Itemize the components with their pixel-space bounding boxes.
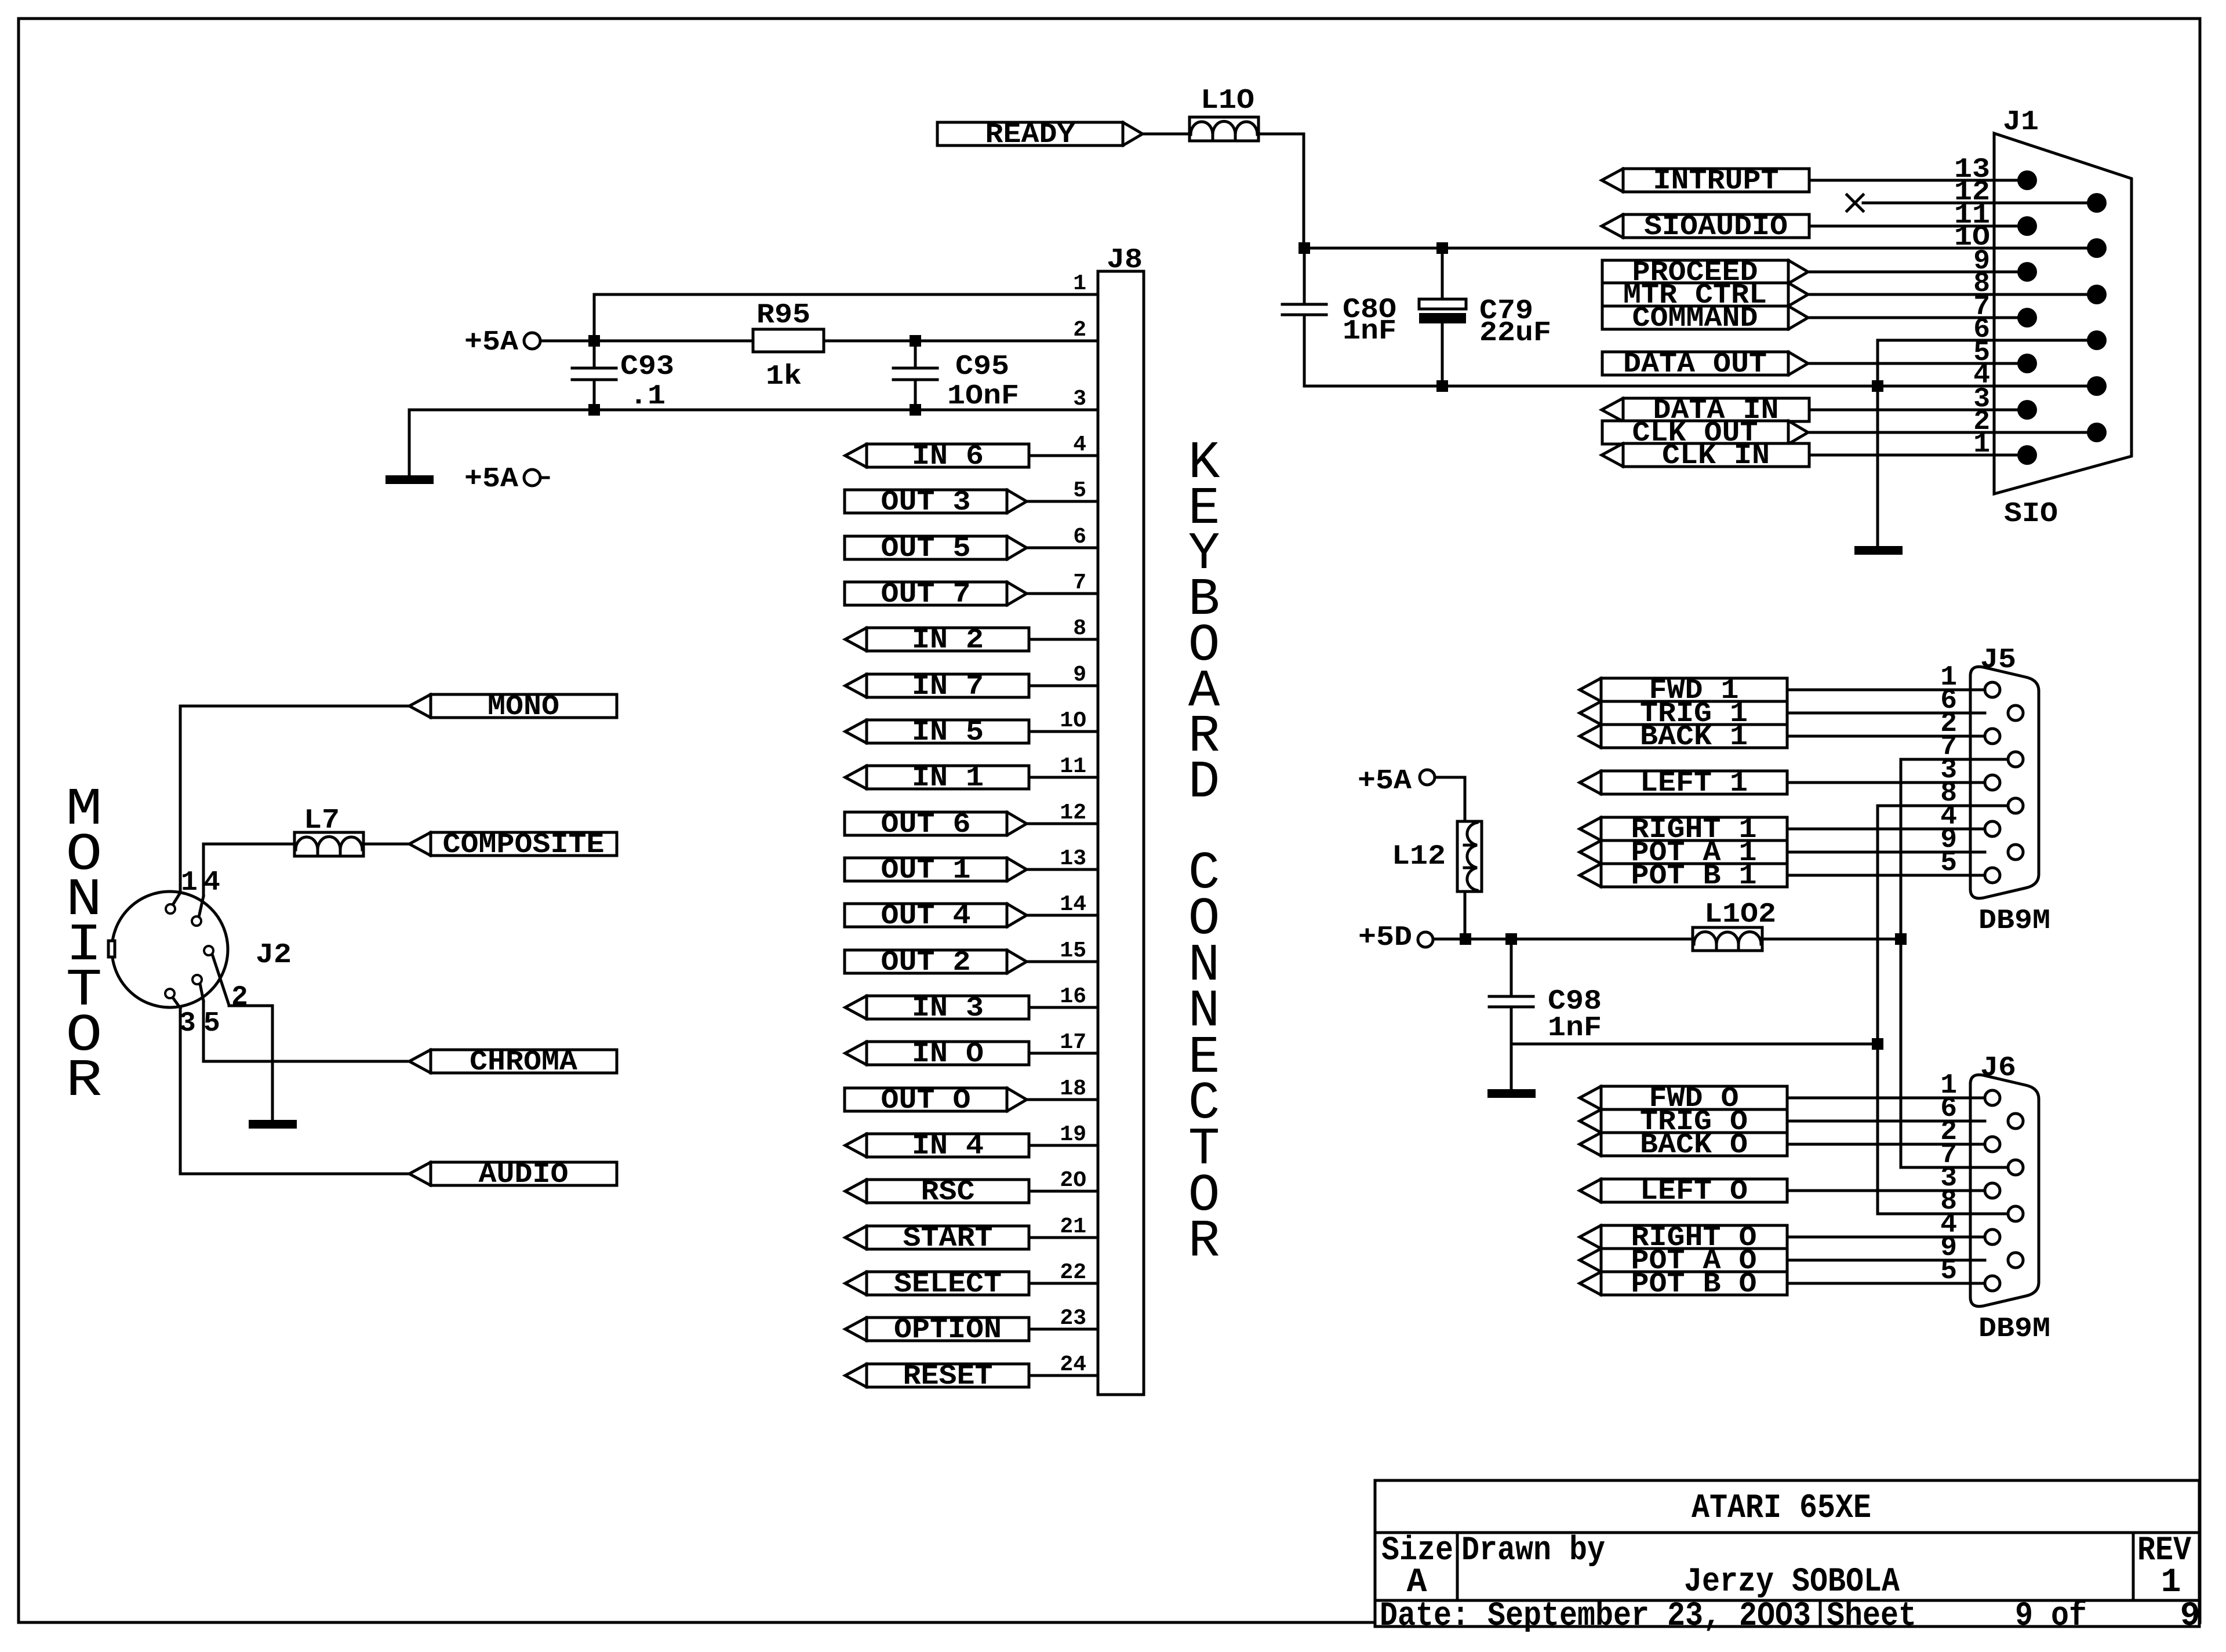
pin 3 J1 [1973, 384, 1990, 415]
svg-text:13: 13 [1060, 846, 1086, 871]
signal flag AUDIO [409, 1159, 617, 1191]
svg-text:SIO: SIO [2004, 498, 2058, 530]
pin 7 J6 [1940, 1140, 1957, 1171]
svg-text:J8: J8 [1107, 245, 1143, 276]
svg-text:.1: .1 [630, 381, 665, 412]
power terminal +5A (return) [464, 464, 548, 495]
svg-text:OUT 5: OUT 5 [881, 533, 971, 565]
title text ATARI 65XE [1692, 1490, 1871, 1527]
pin 1 J1 [1973, 429, 1990, 460]
label MONITOR [66, 780, 103, 1111]
svg-text:SIOAUDIO: SIOAUDIO [1644, 212, 1788, 243]
pin 19 J8 [1060, 1122, 1086, 1147]
pin 2 J1 [1973, 406, 1990, 438]
svg-text:1: 1 [2161, 1564, 2181, 1602]
pin 2 J5 [1940, 708, 1957, 740]
wire J5 pin 5 [1787, 874, 1985, 877]
svg-text:RESET: RESET [903, 1361, 993, 1392]
svg-text:1nF: 1nF [1548, 1013, 1602, 1044]
svg-text:22: 22 [1060, 1260, 1086, 1285]
wire J8 pin 23 [1029, 1328, 1098, 1331]
signal flag OUT 0 [845, 1085, 1027, 1116]
wire J5 pin 9 [1787, 851, 1985, 854]
svg-text:1nF: 1nF [1343, 316, 1396, 347]
wire J8 pin 24 [1029, 1374, 1098, 1377]
svg-text:+5A: +5A [1358, 766, 1412, 797]
pin 11 J8 [1060, 754, 1086, 779]
connector J1 SIO body [1994, 107, 2132, 530]
svg-text:4: 4 [1073, 432, 1086, 457]
pin 4 J1 [1973, 360, 1990, 391]
signal flag START [845, 1223, 1029, 1254]
pin 1 J2 [166, 867, 198, 914]
connector J6 DB9M body [1970, 1053, 2050, 1345]
svg-text:DB9M: DB9M [1978, 1313, 2050, 1345]
svg-text:OUT 3: OUT 3 [881, 487, 971, 518]
junction pin7 bus/+5D [1895, 933, 1907, 945]
svg-text:21: 21 [1060, 1214, 1086, 1239]
pin 11 J1 [1954, 200, 1990, 231]
wire J8 pin 12 [1027, 823, 1098, 825]
pin 12 J1 [1954, 177, 1990, 208]
svg-text:22uF: 22uF [1479, 318, 1551, 349]
svg-text:6: 6 [1073, 525, 1086, 550]
signal flag CLK IN [1602, 441, 1809, 472]
signal flag RSC [845, 1177, 1029, 1208]
pin 20 J8 [1060, 1168, 1086, 1193]
wire J8 pin 13 [1027, 868, 1098, 871]
signal flag DATA IN [1602, 395, 1809, 427]
pin 4 J8 [1073, 432, 1086, 457]
wire L12 to +5D rail [1464, 892, 1467, 939]
wire J1 pin 1 [1809, 454, 2027, 457]
signal flag MTR CTRL [1602, 280, 1808, 311]
svg-text:POT B 1: POT B 1 [1631, 861, 1757, 892]
wire J1 pin 12 [1863, 202, 2097, 205]
inductor L7 [294, 805, 363, 856]
wire +5D rail [1433, 938, 1693, 941]
wire J5 pin 8 [1878, 805, 2008, 807]
svg-text:DB9M: DB9M [1978, 905, 2050, 937]
pin 15 J8 [1060, 938, 1086, 963]
svg-text:2: 2 [231, 982, 248, 1013]
svg-text:START: START [903, 1223, 993, 1254]
svg-text:7: 7 [1073, 570, 1086, 595]
svg-text:OUT 7: OUT 7 [881, 579, 971, 610]
signal flag SELECT [845, 1269, 1029, 1300]
no-connect X J1 pin 12 [1847, 195, 1863, 211]
signal flag BACK 1 [1580, 722, 1787, 753]
pin 5 J8 [1073, 478, 1086, 503]
svg-text:3: 3 [179, 1008, 196, 1039]
svg-text:9: 9 [2180, 1598, 2200, 1635]
pin 1 J5 [1940, 662, 1957, 693]
svg-text:R: R [66, 1051, 103, 1111]
svg-text:J6: J6 [1980, 1053, 2016, 1084]
wire J8 pin 1 rail [594, 294, 1098, 341]
signal flag OUT 3 [845, 487, 1027, 518]
connector J8 body [1098, 245, 1144, 1395]
signal flag RESET [845, 1361, 1029, 1392]
svg-text:J2: J2 [256, 940, 292, 971]
pin 2 J8 [1073, 318, 1086, 343]
svg-text:R95: R95 [756, 300, 810, 331]
wire CHROMA to J2 pin 5 [203, 1001, 409, 1061]
svg-text:D: D [1188, 753, 1220, 813]
svg-text:1: 1 [1973, 429, 1990, 460]
pin 10 J1 [1954, 222, 1990, 253]
wire J8 pin 18 [1027, 1098, 1098, 1101]
wire J8 pin 22 [1029, 1282, 1098, 1285]
pin 6 J1 [1973, 314, 1990, 345]
wire AUDIO to J2 pin 3 [180, 1008, 409, 1174]
pin 13 J1 [1954, 154, 1990, 185]
wire L7 to J2 pin 4 [203, 844, 294, 896]
wire L102 to J5/J6 pin7 bus [1762, 938, 1901, 941]
wire J2 pin 2 to ground [229, 1006, 272, 1120]
signal flag COMPOSITE [409, 829, 617, 861]
pin 17 J8 [1060, 1030, 1086, 1055]
pin 5 J1 [1973, 337, 1990, 369]
signal flag IN 3 [845, 993, 1029, 1024]
svg-text:OUT 6: OUT 6 [881, 809, 971, 840]
title block field Sheet [1827, 1598, 2200, 1635]
signal flag MONO [409, 692, 617, 723]
pin 3 J6 [1940, 1163, 1957, 1194]
wire J8 pin 2 rail [594, 340, 1098, 343]
pin 9 J8 [1073, 663, 1086, 687]
pin 24 J8 [1060, 1352, 1086, 1377]
signal flag READY [937, 119, 1143, 151]
wire J6 pin 1 [1787, 1097, 1985, 1100]
pin 3 J2 [165, 989, 196, 1039]
power terminal +5D [1358, 922, 1433, 954]
wire J8 pin 10 [1029, 730, 1098, 733]
pin 5 J2 [192, 975, 220, 1039]
pin 10 J8 [1060, 708, 1086, 733]
svg-text:8: 8 [1073, 616, 1086, 641]
wire J6 pin 5 [1787, 1282, 1985, 1285]
pin 16 J8 [1060, 984, 1086, 1009]
svg-text:J5: J5 [1980, 645, 2016, 676]
svg-text:2O: 2O [1060, 1168, 1086, 1193]
wire J6 pin 7 [1901, 1166, 2008, 1169]
svg-text:11: 11 [1060, 754, 1086, 779]
svg-text:1: 1 [181, 867, 198, 898]
signal flag CLK OUT [1602, 418, 1808, 449]
wire J8 pin 6 [1027, 547, 1098, 550]
signal flag LEFT 1 [1580, 768, 1787, 799]
wire J1 pin 8 [1808, 293, 2097, 296]
signal flag OUT 7 [845, 579, 1027, 610]
pin 3 J5 [1940, 755, 1957, 786]
pin 3 J8 [1073, 387, 1086, 412]
wire J1 pin 11 [1809, 225, 2027, 228]
svg-text:9: 9 [1073, 663, 1086, 687]
signal flag LEFT 0 [1580, 1176, 1787, 1207]
wire J6 pin 4 [1787, 1236, 1985, 1239]
svg-text:IN 6: IN 6 [912, 441, 984, 472]
wire J1 pin 13 [1809, 179, 2027, 182]
svg-text:IN O: IN O [912, 1039, 984, 1070]
junction C79 bottom [1436, 380, 1448, 392]
svg-text:14: 14 [1060, 892, 1086, 917]
svg-text:1O: 1O [1060, 708, 1086, 733]
svg-text:LEFT 1: LEFT 1 [1640, 768, 1748, 799]
svg-text:COMMAND: COMMAND [1632, 303, 1758, 334]
signal flag FWD 1 [1580, 675, 1787, 707]
wire J6 pin 3 [1787, 1189, 1985, 1192]
ground (C98) [1487, 1089, 1536, 1098]
pin 4 J6 [1940, 1209, 1957, 1240]
svg-text:Sheet: Sheet [1827, 1598, 1916, 1635]
pin 23 J8 [1060, 1306, 1086, 1331]
svg-text:1: 1 [1073, 271, 1086, 296]
svg-text:+5A: +5A [464, 464, 518, 495]
junction C80 top [1298, 242, 1310, 254]
pin 13 J8 [1060, 846, 1086, 871]
wire J5 pin 4 [1787, 828, 1985, 831]
pin 7 J1 [1973, 292, 1990, 323]
wire J8 pin 14 [1027, 914, 1098, 917]
pin 7 J5 [1940, 732, 1957, 763]
svg-text:CLK IN: CLK IN [1662, 441, 1770, 472]
svg-text:4: 4 [203, 867, 220, 898]
ground (J2) [249, 1120, 297, 1129]
svg-text:MONO: MONO [488, 692, 559, 723]
pin 21 J8 [1060, 1214, 1086, 1239]
signal flag OUT 2 [845, 947, 1027, 978]
wire J8 pin 19 [1029, 1144, 1098, 1147]
junction pin8 bus/ground rail [1872, 1038, 1883, 1050]
junction pin4 rail / SIO ground bus [1872, 380, 1883, 392]
svg-text:C95: C95 [955, 351, 1009, 383]
pin 12 J8 [1060, 800, 1086, 825]
wire COMPOSITE to L7 [363, 843, 409, 846]
svg-text:2: 2 [1073, 318, 1086, 343]
svg-text:OUT 2: OUT 2 [881, 947, 971, 978]
wire J8 pin 21 [1029, 1236, 1098, 1239]
pin 9 J6 [1940, 1232, 1957, 1264]
signal flag PROCEED [1602, 257, 1808, 289]
title block field Date [1380, 1598, 1811, 1635]
svg-text:3: 3 [1073, 387, 1086, 412]
junction C79 top [1436, 242, 1448, 254]
svg-text:1OnF: 1OnF [947, 381, 1019, 412]
signal flag CHROMA [409, 1047, 617, 1078]
wire READY to L10 [1143, 133, 1190, 136]
svg-text:POT B O: POT B O [1631, 1269, 1757, 1300]
signal flag IN 5 [845, 717, 1029, 748]
resistor R95 [753, 300, 824, 392]
junction C98/+5D [1505, 933, 1517, 945]
pin 1 J8 [1073, 271, 1086, 296]
wire J1 pin 2 [1808, 431, 2097, 434]
pin 2 J2 [204, 946, 248, 1013]
svg-text:A: A [1407, 1564, 1427, 1602]
wire MONO to J2 pin 1 [180, 706, 409, 893]
signal flag INTRUPT [1602, 166, 1809, 197]
svg-text:SELECT: SELECT [894, 1269, 1002, 1300]
svg-text:19: 19 [1060, 1122, 1086, 1147]
svg-text:IN 4: IN 4 [912, 1131, 984, 1162]
signal flag SIOAUDIO [1602, 212, 1809, 243]
wire J6 pin 2 [1787, 1143, 1985, 1146]
signal flag OPTION [845, 1315, 1029, 1346]
wire J5 pin 2 [1787, 735, 1985, 738]
power terminal +5A (top) [464, 327, 594, 358]
signal flag RIGHT 0 [1580, 1222, 1787, 1254]
signal flag OUT 6 [845, 809, 1027, 840]
pin 18 J8 [1060, 1076, 1086, 1101]
svg-text:5: 5 [203, 1008, 220, 1039]
ground (SIO) [1854, 546, 1903, 555]
wire J1 pin 5 [1808, 362, 2027, 365]
capacitor C98 1nF [1489, 939, 1602, 1044]
junction L12/+5D [1460, 933, 1471, 945]
svg-text:LEFT O: LEFT O [1640, 1176, 1748, 1207]
wire J1 pin 7 [1808, 316, 2027, 319]
svg-text:9 of: 9 of [2015, 1598, 2087, 1635]
signal flag IN 6 [845, 441, 1029, 472]
wire J5 pin 1 [1787, 689, 1985, 692]
svg-text:18: 18 [1060, 1076, 1086, 1101]
junction C95 pin2 [910, 335, 921, 347]
pin 5 J5 [1940, 847, 1957, 879]
svg-text:IN 3: IN 3 [912, 993, 984, 1024]
wire C98 ground rail [1511, 1007, 1878, 1089]
svg-text:DATA OUT: DATA OUT [1623, 349, 1767, 380]
wire J8 pin 9 [1029, 685, 1098, 687]
svg-text:IN 7: IN 7 [912, 671, 984, 703]
svg-text:OUT O: OUT O [881, 1085, 971, 1116]
wire J8 pin 11 [1029, 776, 1098, 779]
svg-text:24: 24 [1060, 1352, 1086, 1377]
junction C95 pin3 [910, 404, 921, 416]
svg-text:23: 23 [1060, 1306, 1086, 1331]
wire J8 pin 20 [1029, 1190, 1098, 1193]
svg-text:BACK O: BACK O [1640, 1130, 1748, 1161]
signal flag POT A 1 [1580, 838, 1787, 869]
junction +5A/C93 pin2 [588, 335, 600, 347]
svg-text:L1O2: L1O2 [1704, 899, 1776, 930]
wire J8 pin 7 [1027, 592, 1098, 595]
svg-text:5: 5 [1073, 478, 1086, 503]
svg-text:5: 5 [1940, 1256, 1957, 1287]
wire L10 to SIO pin10 rail [1259, 134, 1304, 248]
svg-text:+5A: +5A [464, 327, 518, 358]
signal flag DATA OUT [1602, 349, 1808, 380]
junction C93 pin3 [588, 404, 600, 416]
svg-text:CHROMA: CHROMA [470, 1047, 577, 1078]
wire J8 pin 3 rail [409, 410, 1098, 475]
svg-text:16: 16 [1060, 984, 1086, 1009]
inductor L12 [1392, 821, 1482, 892]
connector J5 DB9M body [1970, 645, 2050, 937]
svg-text:INTRUPT: INTRUPT [1653, 166, 1779, 197]
pin 4 J2 [192, 867, 220, 926]
wire J1 pin 6 to ground bus [1878, 340, 2097, 546]
signal flag POT B 0 [1580, 1269, 1787, 1300]
signal flag TRIG 1 [1580, 698, 1787, 730]
svg-text:RSC: RSC [921, 1177, 975, 1208]
signal flag TRIG 0 [1580, 1107, 1787, 1138]
wire J6 pin 8 [1878, 1213, 2008, 1216]
signal flag POT B 1 [1580, 861, 1787, 892]
svg-text:IN 5: IN 5 [912, 717, 984, 748]
svg-text:C93: C93 [620, 351, 674, 383]
signal flag POT A 0 [1580, 1246, 1787, 1277]
signal flag IN 0 [845, 1039, 1029, 1070]
svg-text:ATARI 65XE: ATARI 65XE [1692, 1490, 1871, 1527]
capacitor C95 10nF [893, 341, 1019, 412]
wire J8 pin 16 [1029, 1006, 1098, 1009]
svg-text:OUT 4: OUT 4 [881, 901, 971, 932]
pin 9 J5 [1940, 824, 1957, 856]
pin 8 J6 [1940, 1186, 1957, 1217]
title block [1375, 1480, 2199, 1626]
wire rail SIO pin 10 [1304, 247, 2097, 250]
signal flag OUT 1 [845, 855, 1027, 886]
connector J2 DIN body [108, 892, 292, 1007]
svg-text:Date: September 23, 2OO3: Date: September 23, 2OO3 [1380, 1598, 1811, 1635]
pin 8 J1 [1973, 268, 1990, 300]
svg-text:1k: 1k [766, 361, 802, 392]
pin 22 J8 [1060, 1260, 1086, 1285]
svg-text:Drawn by: Drawn by [1461, 1532, 1605, 1570]
pin 7 J8 [1073, 570, 1086, 595]
svg-text:IN 2: IN 2 [912, 625, 984, 656]
title block field Size [1381, 1532, 1453, 1602]
signal flag IN 7 [845, 671, 1029, 703]
signal flag OUT 4 [845, 901, 1027, 932]
wire pin8 bus J5-J6 [1876, 806, 1879, 1214]
title block field Drawn by [1461, 1532, 1900, 1601]
signal flag RIGHT 1 [1580, 814, 1787, 846]
svg-text:5: 5 [1940, 847, 1957, 879]
wire J8 pin 4 [1029, 454, 1098, 457]
svg-text:12: 12 [1060, 800, 1086, 825]
svg-text:J1: J1 [2003, 107, 2039, 138]
svg-text:+5D: +5D [1358, 922, 1412, 954]
inductor L102 [1693, 899, 1776, 951]
pin 2 J6 [1940, 1116, 1957, 1148]
signal flag IN 4 [845, 1131, 1029, 1162]
signal flag IN 2 [845, 625, 1029, 656]
svg-text:15: 15 [1060, 938, 1086, 963]
pin 6 J5 [1940, 685, 1957, 716]
inductor L10 [1190, 85, 1259, 141]
svg-text:OUT 1: OUT 1 [881, 855, 971, 886]
capacitor C80 1nF [1282, 248, 1396, 386]
pin 5 J6 [1940, 1256, 1957, 1287]
wire J5 pin 6 [1787, 712, 1985, 715]
pin 8 J8 [1073, 616, 1086, 641]
label KEYBOARD CONNECTOR [1188, 434, 1220, 1272]
ground (pin3 rail) [385, 475, 434, 484]
wire J6 pin 9 [1787, 1259, 1985, 1262]
capacitor C79 22uF (polarized) [1419, 248, 1551, 386]
signal flag BACK 0 [1580, 1130, 1787, 1161]
svg-text:IN 1: IN 1 [912, 763, 984, 794]
title block field REV [2137, 1532, 2191, 1602]
pin 1 J6 [1940, 1070, 1957, 1101]
wire J1 pin 3 [1809, 409, 2027, 412]
svg-text:L7: L7 [304, 805, 340, 836]
wire pin7 bus J5-J6 [1900, 759, 1903, 1167]
wire J8 pin 15 [1027, 960, 1098, 963]
wire rail SIO pin 4 [1304, 385, 2097, 388]
